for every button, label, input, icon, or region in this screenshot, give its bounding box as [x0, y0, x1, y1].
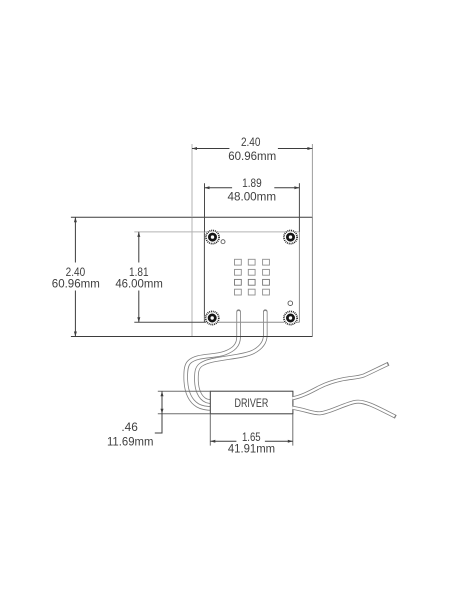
wire W1 output lead right lower — [293, 402, 396, 417]
svg-text:2.40: 2.40 — [241, 135, 261, 149]
dimension 2.40 / 60.96mm top: extension lines — [192, 144, 312, 217]
small hole near screw TL — [221, 240, 225, 244]
svg-text:48.00mm: 48.00mm — [228, 189, 277, 203]
screw TR — [283, 230, 298, 245]
dimension 1.81 / 46.00mm: dimension line and arrows — [115, 232, 163, 322]
svg-text:1.89: 1.89 — [242, 176, 262, 190]
dimension 1.89 / 48.00mm top: extension lines — [205, 183, 300, 232]
dimension .46 / 11.69mm: extension lines — [158, 391, 211, 414]
screw TL — [205, 230, 220, 245]
LED array 3x4 — [235, 259, 270, 295]
wire W2 lead from panel to driver — [196, 312, 265, 402]
svg-text:11.69mm: 11.69mm — [107, 435, 154, 449]
screw BR — [283, 310, 298, 325]
dimension 2.40 / 60.96mm left: extension lines (panel top and bottom edges extended) — [71, 217, 313, 336]
svg-text:DRIVER: DRIVER — [235, 396, 269, 410]
dimension 2.40 / 60.96mm left: dimension line and arrows — [52, 217, 100, 336]
svg-text:46.00mm: 46.00mm — [115, 277, 163, 291]
dimension 1.65 / 41.91mm: dimension line, arrows, text — [210, 430, 292, 456]
dimension 1.89 / 48.00mm top: dimension line, arrows, text — [205, 176, 300, 203]
svg-text:.46: .46 — [121, 420, 138, 434]
lens plate inner square — [134, 232, 299, 322]
svg-text:41.91mm: 41.91mm — [228, 442, 275, 456]
panel outer square — [192, 217, 312, 336]
dimension .46 / 11.69mm: dimension line, arrows, leader, text — [107, 391, 164, 448]
small hole above screw BR — [288, 301, 293, 306]
wire W2 output lead right upper — [293, 364, 389, 399]
dimension 2.40 / 60.96mm top: dimension line, arrows, text — [192, 135, 312, 163]
dimension 1.65 / 41.91mm: extension lines — [210, 414, 292, 446]
screw BL — [205, 310, 220, 325]
wire W1 lead from panel to driver — [186, 312, 239, 409]
svg-text:60.96mm: 60.96mm — [228, 149, 276, 163]
svg-text:60.96mm: 60.96mm — [52, 277, 100, 291]
driver box — [210, 391, 293, 414]
